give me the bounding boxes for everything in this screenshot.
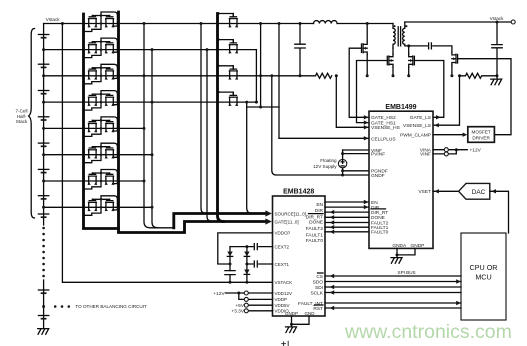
terminal: VINF <box>444 152 448 156</box>
node: filter cap bottom junction <box>299 74 302 77</box>
node: column B to VSTACK rail <box>245 281 248 284</box>
wire: rows 2-4 tie vertical <box>255 50 257 103</box>
node: Q_HS2 drain junction <box>366 22 369 25</box>
wire: row1 to transformer primary <box>337 23 393 25</box>
wire: secondary top rail to Vstack output <box>405 21 511 23</box>
arrow: VSENSE_LS pin <box>434 123 439 127</box>
node: tap junction 7 <box>42 180 45 183</box>
wire: EN between EMB1428 and EMB1499 <box>325 201 369 203</box>
transformer T1 core <box>398 27 400 46</box>
wire: CEXT1 node <box>247 263 273 265</box>
svg-text:+5V: +5V <box>235 303 244 309</box>
battery cell B5 of 7-cell half stack <box>38 143 48 146</box>
arrow: PWM_CLAMP into driver <box>463 133 468 137</box>
svg-text:CELLPLUS: CELLPLUS <box>371 136 396 142</box>
svg-text:SCLK: SCLK <box>310 290 323 296</box>
wire: GATE_LS drive riser <box>414 61 443 118</box>
wire: VSET from DAC <box>433 190 459 192</box>
node: tie at row1 <box>259 22 262 25</box>
node: supply top junction <box>341 152 344 155</box>
svg-text:CEXT2: CEXT2 <box>275 244 290 249</box>
brace: 7-cell half stack <box>29 29 35 219</box>
svg-text:VDD12V: VDD12V <box>275 291 293 296</box>
node: row 7 on collect line A <box>143 180 146 183</box>
op-amp U2 EMB1499 box <box>369 111 433 248</box>
node: secondary bottom junction <box>407 44 410 47</box>
wire: DIR_RT between EMB1428 and EMB1499 <box>325 211 369 213</box>
node: column A to VSTACK rail <box>229 281 232 284</box>
svg-text:FAULT1: FAULT1 <box>306 233 324 239</box>
svg-text:GATE_HS2: GATE_HS2 <box>371 115 396 121</box>
wire: CS to CPU <box>325 275 461 277</box>
wire: cell tap row 3 <box>44 75 316 77</box>
ground: EMB1499 GNDA/GNDP <box>397 248 415 255</box>
transistor pair Q2a/Q2b (cell switch row 2) <box>84 38 118 58</box>
node: Q_LS1 source junction <box>407 74 410 77</box>
svg-text:SOURCE[11..0]: SOURCE[11..0] <box>275 211 306 216</box>
node: primary phase dot <box>394 25 396 27</box>
transformer T1 secondary winding <box>403 22 405 46</box>
battery cell B7 of 7-cell half stack <box>38 196 48 199</box>
node: cellplus link joint <box>259 106 262 109</box>
battery cell B1 of 7-cell half stack <box>38 35 48 38</box>
battery cell B3 of 7-cell half stack <box>38 91 48 94</box>
terminal: VDDP <box>244 297 248 301</box>
wire: cell tap row 8 <box>44 206 152 208</box>
node: CEXT1 junction <box>245 263 248 266</box>
transistor Q_HS1 <box>387 54 393 67</box>
transistor pair Q5a/Q5b (cell switch row 5) <box>84 117 118 137</box>
svg-text:GNDP: GNDP <box>285 311 298 316</box>
svg-text:www.cntronics.com: www.cntronics.com <box>344 321 512 343</box>
svg-text:VSENSE_HS: VSENSE_HS <box>371 125 400 131</box>
node: tie at row3 <box>259 74 262 77</box>
diode D2 <box>244 252 249 257</box>
wire: VINF to +12V <box>433 150 456 154</box>
arrow: GATE_LS pin <box>436 115 441 119</box>
svg-text:+3.3V: +3.3V <box>231 309 244 315</box>
ground: bottom of battery stack <box>38 329 49 335</box>
wire: Vstack sense riser down to EMB1428 VSTACK <box>62 24 272 283</box>
ground: secondary sense ground <box>496 76 498 79</box>
wire: Q_HS1 drain to primary bottom <box>392 48 394 54</box>
svg-text:VSENSE_LS: VSENSE_LS <box>403 123 431 129</box>
transistor pair Q6a/Q6b (cell switch row 6) <box>84 143 118 163</box>
svg-text:DONE: DONE <box>371 215 385 221</box>
wire: battery stack vertical line <box>43 24 45 328</box>
transistor M2 (half-stack select switch) <box>217 38 238 53</box>
wire: +3.3V to VDDIO <box>248 310 272 312</box>
wire: DAC input from CPU <box>490 191 509 233</box>
svg-text:EN: EN <box>371 200 378 206</box>
node: column A / VDDCP junction <box>229 263 232 266</box>
arrow: CELLPLUS pin <box>364 136 369 140</box>
svg-text:+12V: +12V <box>213 291 225 297</box>
wire: Q_LS2 gate from mosfet driver <box>458 59 511 135</box>
arrow: VSET pin <box>434 189 439 193</box>
block: MOSFET DRIVER <box>468 127 495 143</box>
node: supply bottom junction <box>341 169 344 172</box>
svg-text:PVINF: PVINF <box>371 151 385 157</box>
wire: cell tap row 1 <box>44 23 314 25</box>
svg-text:RST: RST <box>313 306 323 312</box>
wire: DIR between EMB1428 and EMB1499 <box>325 206 369 208</box>
wire: FAULT0 between EMB1428 and EMB1499 <box>325 231 369 233</box>
svg-text:SDI: SDI <box>315 285 323 291</box>
arrow: GATE_HS2 pin <box>364 115 369 119</box>
source: Floating 12V Supply <box>338 159 346 167</box>
wire: VINF link <box>343 149 369 151</box>
arrow: GATE[11..0] bus arrowhead <box>265 218 271 224</box>
svg-text:DONE: DONE <box>309 220 323 226</box>
battery cell B4 of 7-cell half stack <box>38 117 48 120</box>
node: row 2 on collect line B <box>151 48 154 51</box>
node: row4 / rows2-4 tie junction <box>255 101 258 104</box>
node: row 3 on collect line A <box>143 74 146 77</box>
wire: FAULT_INT to CPU <box>325 302 461 304</box>
battery cell B2 of 7-cell half stack <box>38 64 48 67</box>
node: row4 descender junction <box>245 101 248 104</box>
transistor pair Q7a/Q7b (cell switch row 7) <box>84 170 118 190</box>
capacitor C6 (CEXT1) <box>254 261 257 267</box>
wire: cell tap row 6 <box>44 154 152 156</box>
svg-text:MOSFET: MOSFET <box>472 130 491 135</box>
svg-text:EN: EN <box>316 202 323 208</box>
svg-text:Floating: Floating <box>320 158 337 163</box>
wire: Q_LS1 drain to secondary bottom <box>408 46 410 54</box>
block: DAC <box>459 183 490 199</box>
wire: SDI to CPU <box>325 286 461 288</box>
diode D3 <box>244 270 249 275</box>
battery cell B9 (lower stack, above junction) <box>38 290 48 293</box>
wire: pair column left gate bus (bold) <box>84 14 119 229</box>
arrow: SOURCE[11..0] bus arrowhead <box>265 210 271 216</box>
node: tap junction 4 <box>42 101 45 104</box>
svg-text:CPU OR: CPU OR <box>470 263 498 272</box>
node: +12V branch <box>237 292 240 295</box>
transistor M4 (half-stack select switch) <box>217 91 238 106</box>
capacitor C4 (pump flying cap) <box>225 271 235 275</box>
diode D1 <box>227 252 232 257</box>
wire: Q_LS1 source to rail <box>408 67 410 76</box>
wire: row3 floating-ground riser and rail to GNDF <box>272 76 369 175</box>
op-amp U1 EMB1428 box <box>273 196 326 316</box>
node: secondary phase dot <box>405 25 407 27</box>
node: filter cap top junction <box>299 22 302 25</box>
node: tap junction 8 <box>42 206 45 209</box>
svg-text:SPI BUS: SPI BUS <box>398 270 416 275</box>
battery cell B10 (lower stack, below junction) <box>38 316 48 319</box>
svg-text:12V Supply: 12V Supply <box>313 164 337 169</box>
wire: cell tap row 2 <box>44 49 257 51</box>
wire: source collect line B (even rows) <box>152 50 158 228</box>
wire: SDO to CPU <box>325 281 461 283</box>
terminal: Vstack output <box>511 20 515 24</box>
wire: cell tap row 4 <box>44 101 257 103</box>
node: riser at row1 <box>278 22 281 25</box>
svg-text:GATE[11..0]: GATE[11..0] <box>275 219 299 224</box>
wire: VINA to +12V <box>433 149 467 151</box>
node: row 8 on collect line B <box>151 206 154 209</box>
node: row1 feeder junction <box>200 22 203 25</box>
svg-text:FAULT2: FAULT2 <box>306 226 324 232</box>
node: Vstack output junction <box>496 21 499 24</box>
svg-text:DIR_RT: DIR_RT <box>371 210 388 216</box>
wire: FAULT1 between EMB1428 and EMB1499 <box>325 226 369 228</box>
wire: pair column right gate bus (bold) <box>119 12 267 233</box>
transistor pair Q8a/Q8b (cell switch row 8) <box>84 196 118 216</box>
svg-text:TO OTHER BALANCING CIRCUIT: TO OTHER BALANCING CIRCUIT <box>75 304 147 309</box>
svg-text:VINF: VINF <box>420 152 431 158</box>
svg-text:GNDF: GNDF <box>371 173 385 179</box>
svg-text:GNDP: GNDP <box>410 243 424 249</box>
svg-text:PWM_CLAMP: PWM_CLAMP <box>400 133 431 139</box>
block: CPU OR MCU <box>461 233 506 320</box>
ground: EMB1428 GNDP/GND <box>292 316 310 324</box>
arrow: VSENSE_HS pin <box>364 125 369 129</box>
arrow: GATE_HS1 pin <box>364 120 369 124</box>
svg-text:EMB1428: EMB1428 <box>283 189 314 196</box>
wire: charge pump column A <box>229 247 231 283</box>
terminal: VDD12V <box>244 291 248 295</box>
wire: secondary bottom link <box>405 45 427 47</box>
capacitor C3 (output) <box>492 22 502 76</box>
wire: DONE between EMB1428 and EMB1499 <box>325 216 369 218</box>
transistor pair Q3a/Q3b (cell switch row 3) <box>84 64 118 84</box>
svg-text:CS: CS <box>316 274 323 280</box>
wire: rows 1-3 tie vertical <box>260 24 262 108</box>
wire: RST to CPU <box>325 307 461 309</box>
wire: branch to VDDP <box>239 293 273 299</box>
svg-text:MCU: MCU <box>475 273 491 282</box>
node: Q_HS2 source junction <box>366 74 369 77</box>
transistor Q_HS2 <box>362 42 368 55</box>
svg-text:CEXT1: CEXT1 <box>275 262 290 267</box>
node: supply rail junction <box>341 174 344 177</box>
wire: GATE_HS2 drive <box>349 48 368 117</box>
svg-text:DAC: DAC <box>472 189 486 196</box>
svg-text:DRIVER: DRIVER <box>472 136 490 141</box>
wire: floating supply riser <box>342 150 344 175</box>
wire: cellplus riser from row1 <box>278 24 280 139</box>
battery cell B8 of 7-cell half stack <box>38 214 48 217</box>
wire: column-2 gate bus (bold) joining GATE bus <box>218 14 224 222</box>
wire: Q_HS2 drain to row1 <box>366 24 368 42</box>
svg-text:Half-: Half- <box>17 114 27 119</box>
inductor L1 <box>314 21 338 24</box>
battery cell B6 of 7-cell half stack <box>38 169 48 172</box>
terminal: VINA <box>444 148 448 152</box>
wire: charge pump column B <box>246 247 248 283</box>
wire: SOURCE bus into EMB1428 (bold) <box>174 214 266 228</box>
svg-text:VDDP: VDDP <box>275 297 288 302</box>
wire: row2 feeder down to GATE bus <box>207 50 212 222</box>
arrow: into DAC <box>491 189 496 193</box>
node: tap junction 6 <box>42 153 45 156</box>
terminal: VDDIO <box>244 309 248 313</box>
resistor R1 (sense) <box>316 73 332 78</box>
wire: +5V to VDD5V <box>248 304 272 306</box>
wire: source collect line A (odd rows) <box>144 24 174 228</box>
wire: +12V to VDD12V <box>226 292 273 294</box>
capacitor C2 (clamp) <box>429 43 432 49</box>
transistor M3 (half-stack select switch) <box>217 65 238 80</box>
node: +12V junction <box>455 148 458 151</box>
wire: PWM_CLAMP to driver <box>433 134 463 136</box>
wire: row4 descender to SOURCE bus <box>247 102 253 213</box>
svg-text:VDD5V: VDD5V <box>275 303 290 308</box>
node: Vstack riser junction <box>61 22 64 25</box>
wire: Q_LS2 source to rail <box>451 65 453 76</box>
wire: cellplus link <box>247 106 279 108</box>
svg-text:VSTACK: VSTACK <box>275 280 293 285</box>
wire: Q_HS2 source to rail <box>366 55 368 76</box>
wire: cell tap row 7 <box>44 180 144 182</box>
node: Q_HS1 source junction <box>392 74 395 77</box>
transformer T1 primary winding <box>393 24 395 49</box>
node: tap junction 3 <box>42 74 45 77</box>
capacitor C5 (CEXT2) <box>254 244 257 250</box>
terminal: VDD5V <box>244 303 248 307</box>
svg-text:EMB1499: EMB1499 <box>385 104 416 111</box>
transistor pair Q1a/Q1b (cell switch row 1) <box>84 12 118 32</box>
svg-text:+12V: +12V <box>470 148 482 154</box>
node: row 1 on collect line A <box>143 22 146 25</box>
svg-text:Vstack: Vstack <box>490 16 504 21</box>
node: row2 feeder junction <box>206 48 209 51</box>
node: VSENSE_HS tap <box>335 74 338 77</box>
node: output cap bottom junction <box>496 74 499 77</box>
wire: GATE_HS1 drive <box>357 61 388 123</box>
svg-text:GNDA: GNDA <box>392 243 407 249</box>
wire: row1 feeder down to SOURCE bus <box>201 24 206 214</box>
node: row 4 on collect line B <box>151 101 154 104</box>
wire: PVINF link <box>343 153 369 155</box>
transistor M1 (half-stack select switch) <box>217 12 238 27</box>
node: VSENSE_LS tap <box>458 74 461 77</box>
node: Q_LS2 source junction <box>450 74 453 77</box>
wire: cell tap row 5 <box>44 127 144 129</box>
svg-text:FAULT0: FAULT0 <box>371 230 389 236</box>
capacitor C1 (input filter) <box>295 24 305 76</box>
wire: FAULT2 between EMB1428 and EMB1499 <box>325 222 369 224</box>
svg-text:GATE_LS: GATE_LS <box>410 115 431 121</box>
wire: SCLK to CPU <box>325 292 461 294</box>
wire: CEXT2 node <box>230 246 273 248</box>
mark: page artifact bottom center <box>281 341 288 346</box>
wire: VSENSE_HS riser <box>336 76 368 128</box>
node: junction to other balancing circuit <box>42 305 45 308</box>
svg-text:Vstack: Vstack <box>46 17 60 22</box>
node: tap junction 5 <box>42 127 45 130</box>
node: row 6 on collect line B <box>151 153 154 156</box>
wire: VDDCP loop <box>218 233 273 264</box>
wire: clamp cap to Q_LS2 drain <box>433 46 452 52</box>
svg-text:VDDCP: VDDCP <box>275 231 291 236</box>
node: tap junction 2 <box>42 48 45 51</box>
resistor R2 (sense to ground) <box>460 73 498 78</box>
svg-text:Stack: Stack <box>16 119 28 124</box>
transistor Q_LS1 <box>409 54 415 67</box>
node: row3 floating-ground junction <box>270 74 273 77</box>
node: CEXT2 junction <box>245 245 248 248</box>
wire: Q_HS1 source to rail <box>392 67 394 76</box>
wire: VSENSE_LS riser <box>433 76 460 125</box>
node: stack continuation ellipsis dots <box>42 227 45 278</box>
transistor pair Q4a/Q4b (cell switch row 4) <box>84 91 118 111</box>
transistor Q_LS2 <box>452 52 458 65</box>
svg-text:DIR_RT: DIR_RT <box>306 214 323 220</box>
svg-text:SDO: SDO <box>313 279 324 285</box>
svg-text:FAULT0: FAULT0 <box>306 238 324 244</box>
node: row 5 on collect line A <box>143 127 146 130</box>
svg-text:VSET: VSET <box>418 189 431 195</box>
svg-text:7-Cell: 7-Cell <box>16 109 28 114</box>
wire: CELLPLUS into EMB1499 <box>279 137 369 139</box>
wire: dotted link to other balancing circuit <box>54 305 70 308</box>
wire: PGNDF link <box>343 170 369 172</box>
